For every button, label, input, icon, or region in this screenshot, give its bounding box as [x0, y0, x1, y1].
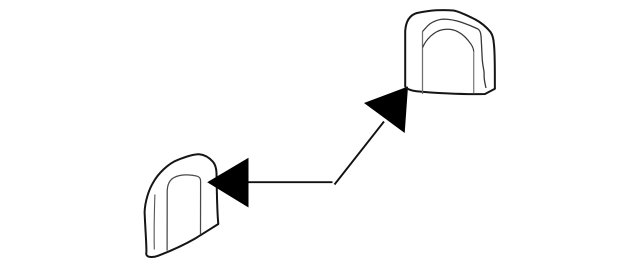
part: right cap inner arch curve — [423, 29, 474, 52]
part: right cap inner arch right edge — [473, 51, 475, 93]
wire: diagonal leader line — [335, 122, 385, 185]
arrow: left solid arrowhead — [207, 158, 248, 208]
arrow: upper solid arrowhead — [364, 87, 408, 134]
part: left cap outer outline — [145, 154, 219, 257]
part: left cap inner arch — [167, 175, 201, 251]
wire: horizontal leader line — [249, 181, 333, 183]
part: right cap middle arch left edge — [422, 32, 424, 95]
part: right cap outer outline — [405, 10, 495, 94]
part: right cap middle arch curve — [423, 19, 487, 88]
part: left cap crease line — [153, 195, 156, 250]
